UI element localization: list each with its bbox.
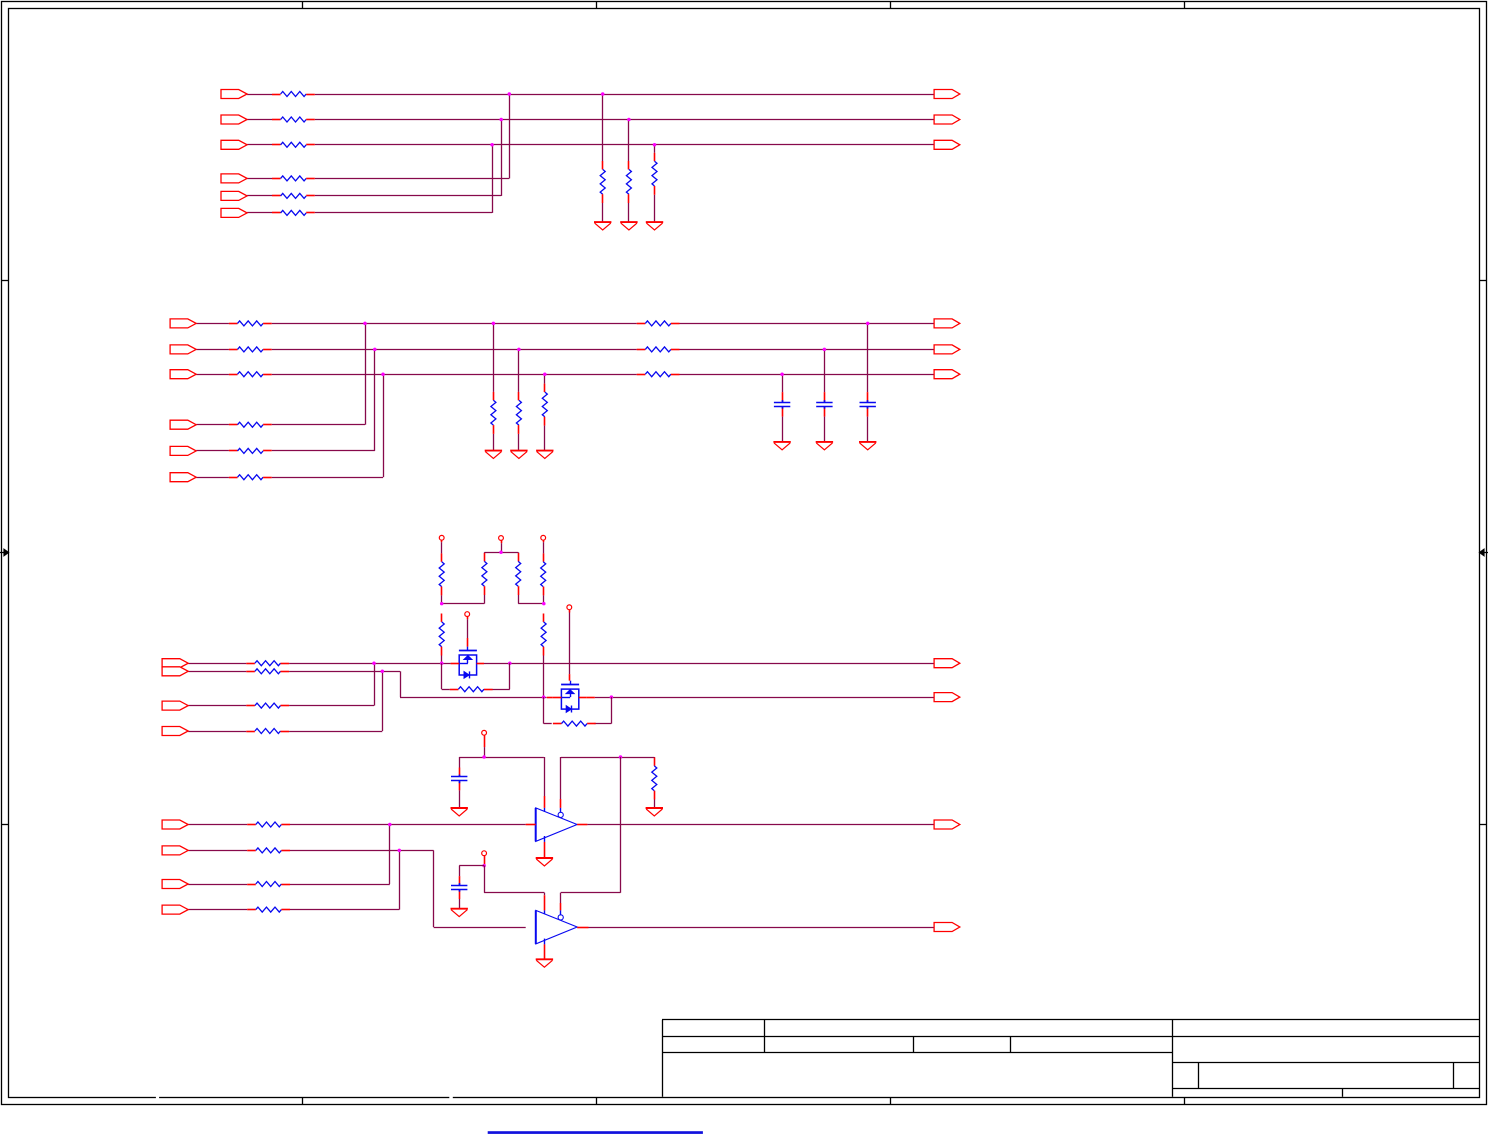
port P4-4 xyxy=(162,905,188,914)
junction xyxy=(363,322,367,326)
port P2-4 xyxy=(170,420,196,429)
bus wires section1 xyxy=(247,94,934,213)
bus wires section4 xyxy=(188,825,526,928)
hyperlink underline xyxy=(488,1131,703,1134)
port P2-out3 xyxy=(934,370,960,379)
port P3-3 xyxy=(162,701,188,710)
resistor R2b-2 xyxy=(637,347,680,352)
wire stub xyxy=(518,349,520,450)
resistor R3b xyxy=(482,553,487,595)
port P4-3 xyxy=(162,880,188,889)
junction xyxy=(517,348,521,352)
power rail2 xyxy=(561,757,654,759)
bus wires section3 xyxy=(188,663,934,731)
capacitor C2-2 xyxy=(816,400,832,409)
port P3-1 xyxy=(162,659,188,668)
power pin VE xyxy=(567,605,572,681)
junction xyxy=(823,348,827,352)
resistor R4-4 xyxy=(247,907,290,912)
port P2-1 xyxy=(170,319,196,328)
port P2-out2 xyxy=(934,345,960,354)
port P1-out2 xyxy=(934,115,960,124)
resistor R1-4 xyxy=(272,176,315,181)
wire rail3 xyxy=(459,866,484,877)
ground G2-1 xyxy=(485,451,502,459)
resistor R3f xyxy=(541,614,546,656)
wire stub xyxy=(867,323,869,442)
port P4-1 xyxy=(162,820,188,829)
ground G1-2 xyxy=(620,222,637,230)
port P1-out3 xyxy=(934,140,960,149)
resistor R2-6 xyxy=(229,475,272,480)
ground G1-3 xyxy=(646,222,663,230)
resistor R1-6 xyxy=(272,210,315,215)
resistor R3-2 xyxy=(246,669,289,674)
wire xyxy=(654,800,656,809)
port P1-4 xyxy=(221,174,247,183)
port P1-3 xyxy=(221,140,247,149)
ground G2c-2 xyxy=(816,442,833,450)
port P1-out1 xyxy=(934,90,960,99)
port P4-out1 xyxy=(934,820,960,829)
junction xyxy=(388,823,392,827)
port P1-1 xyxy=(221,90,247,99)
resistor R3g xyxy=(450,687,493,692)
ground G4-2 xyxy=(451,808,468,816)
junction xyxy=(482,755,486,759)
port P1-2 xyxy=(221,115,247,124)
resistor R2-3 xyxy=(229,372,272,377)
wire stub xyxy=(782,374,784,442)
resistor R4g xyxy=(652,758,657,800)
wire stub xyxy=(544,374,546,450)
junction xyxy=(627,118,631,122)
wire stub R1d2 xyxy=(628,120,630,223)
port P2-5 xyxy=(170,446,196,455)
junction xyxy=(780,372,784,376)
port P2-out1 xyxy=(934,319,960,328)
junction xyxy=(373,348,377,352)
wire xyxy=(441,656,443,664)
port P2-3 xyxy=(170,370,196,379)
ground G2c-3 xyxy=(859,442,876,450)
port P3-4 xyxy=(162,727,188,736)
port P3-out2 xyxy=(934,693,960,702)
port P2-2 xyxy=(170,345,196,354)
ESD diode D2 xyxy=(547,681,595,713)
junction xyxy=(499,551,503,555)
junction xyxy=(653,143,657,147)
resistor R1d1 xyxy=(600,161,605,203)
wire cap2 xyxy=(459,876,461,909)
wire U2 out xyxy=(577,927,934,929)
resistor R1-5 xyxy=(272,193,315,198)
wire xyxy=(485,551,519,554)
ground G4-4 xyxy=(451,909,468,917)
capacitor C2-3 xyxy=(860,400,876,409)
port P3-2 xyxy=(162,667,188,676)
ground G2-2 xyxy=(510,451,527,459)
port P2-6 xyxy=(170,473,196,482)
wire xyxy=(543,656,545,698)
ground G4-3 xyxy=(646,808,663,816)
power pin VA xyxy=(439,535,444,553)
resistor R3a xyxy=(439,553,444,595)
wire loop xyxy=(544,697,612,724)
port P4-2 xyxy=(162,846,188,855)
wire split xyxy=(484,552,518,554)
wire stub xyxy=(824,349,826,442)
resistor R3-3 xyxy=(246,703,289,708)
resistor R1d2 xyxy=(626,161,631,203)
capacitor C4-2 xyxy=(451,883,467,892)
junction xyxy=(542,602,546,606)
capacitor C2-1 xyxy=(774,400,790,409)
junction xyxy=(398,849,402,853)
wire xyxy=(441,595,443,603)
junction xyxy=(508,661,512,665)
power pin VD xyxy=(465,612,470,647)
wire cap1 xyxy=(459,768,461,809)
resistor R3-4 xyxy=(246,729,289,734)
resistor R2d2 xyxy=(516,392,521,434)
junction xyxy=(866,322,870,326)
resistor R1-3 xyxy=(272,142,315,147)
junction xyxy=(482,864,486,868)
resistor R4-1 xyxy=(247,822,290,827)
wire U2 vcc xyxy=(484,866,544,915)
resistor R3c xyxy=(516,553,521,595)
ground G1-1 xyxy=(594,222,611,230)
power rail1 xyxy=(459,757,544,768)
wire xyxy=(518,595,544,604)
wire fb xyxy=(561,757,621,915)
wire stub xyxy=(493,323,495,450)
junction xyxy=(492,322,496,326)
wire U1 in xyxy=(526,824,536,826)
resistor R2-2 xyxy=(229,347,272,352)
power pin VF xyxy=(482,730,487,757)
port P3-out1 xyxy=(934,659,960,668)
wire U1 gnd xyxy=(544,836,546,858)
junction xyxy=(499,118,503,122)
resistor R1d3 xyxy=(652,153,657,195)
resistor R2d3 xyxy=(542,384,547,426)
wire xyxy=(543,595,545,603)
wire stub R1d1 xyxy=(602,94,604,222)
junction xyxy=(381,372,385,376)
ground G2-3 xyxy=(536,451,553,459)
ground G4-1 xyxy=(536,858,553,866)
wire stub R1d3 xyxy=(654,145,656,222)
port P1-5 xyxy=(221,191,247,200)
resistor R4-3 xyxy=(247,882,290,887)
wire loop xyxy=(442,663,510,689)
junction xyxy=(440,661,444,665)
junction xyxy=(372,661,376,665)
op-amp U2 xyxy=(536,910,577,944)
wire U1 en xyxy=(560,757,562,813)
wire xyxy=(442,595,485,604)
resistor R2d1 xyxy=(491,392,496,434)
wire U1 out xyxy=(577,824,934,826)
resistor R2-5 xyxy=(229,448,272,453)
ground G2c-1 xyxy=(773,442,790,450)
port P1-6 xyxy=(221,208,247,217)
power pin VC xyxy=(541,535,546,553)
resistor R3-1 xyxy=(246,661,289,666)
wire R4g xyxy=(654,756,656,759)
resistor R2-1 xyxy=(229,321,272,326)
bus wires section2 xyxy=(196,323,934,477)
resistor R3d xyxy=(541,553,546,595)
resistor R3e xyxy=(439,614,444,656)
title block xyxy=(662,1020,1479,1097)
resistor R4-2 xyxy=(247,848,290,853)
resistor R2b-1 xyxy=(637,321,680,326)
junction xyxy=(440,602,444,606)
junction xyxy=(543,372,547,376)
resistor R1-2 xyxy=(272,117,315,122)
capacitor C4-1 xyxy=(451,775,467,784)
resistor R2-4 xyxy=(229,422,272,427)
power pin VB xyxy=(499,536,504,553)
junction xyxy=(601,92,605,96)
junction xyxy=(381,670,385,674)
junction xyxy=(508,92,512,96)
ESD diode D1 xyxy=(451,647,484,679)
junction xyxy=(542,695,546,699)
wire U2 gnd xyxy=(544,939,546,960)
junction xyxy=(619,755,623,759)
power pin VG xyxy=(482,851,487,866)
port P4-out2 xyxy=(934,923,960,932)
op-amp U1 xyxy=(536,808,577,842)
resistor R3h xyxy=(553,721,596,726)
bubble U1 xyxy=(558,812,563,817)
junction xyxy=(610,695,614,699)
bubble U2 xyxy=(558,915,563,920)
resistor R2b-3 xyxy=(637,372,680,377)
ground G4-5 xyxy=(536,959,553,967)
wire U1 vcc xyxy=(544,757,546,812)
junction xyxy=(490,143,494,147)
resistor R1-1 xyxy=(272,92,315,97)
